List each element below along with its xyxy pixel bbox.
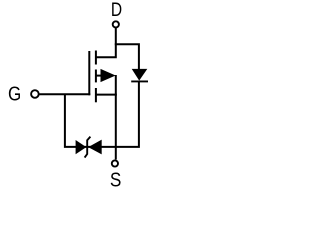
mosfet Q1 body stub — [96, 75, 102, 77]
terminal circle S — [112, 160, 118, 166]
terminal circle D — [113, 21, 119, 27]
mosfet Q1 channel top bar — [95, 51, 97, 65]
svg-text:S: S — [110, 168, 121, 191]
zener D2 right triangle — [88, 140, 102, 155]
mosfet Q1 channel middle bar — [95, 70, 97, 83]
mosfet Q1 body arrow — [101, 69, 116, 82]
wire source stub — [96, 94, 117, 96]
wire drain branch to body diode — [115, 44, 139, 69]
mosfet Q1 channel bottom bar — [95, 88, 97, 102]
wire gate lead — [39, 93, 90, 95]
svg-text:D: D — [111, 0, 122, 20]
wire gate protection branch + bottom rail + diode cathode lead — [65, 82, 139, 147]
svg-text:G: G — [8, 82, 21, 105]
wire drain vertical to top stub — [96, 28, 116, 58]
body diode D1 cathode bar — [131, 80, 148, 82]
wire source vertical — [115, 75, 117, 160]
zener D2 center bar with hooks — [85, 137, 91, 158]
zener D2 left triangle — [76, 140, 87, 154]
body diode D1 triangle — [132, 69, 148, 81]
terminal circle G — [31, 90, 39, 98]
mosfet Q1 gate plate — [88, 51, 90, 95]
